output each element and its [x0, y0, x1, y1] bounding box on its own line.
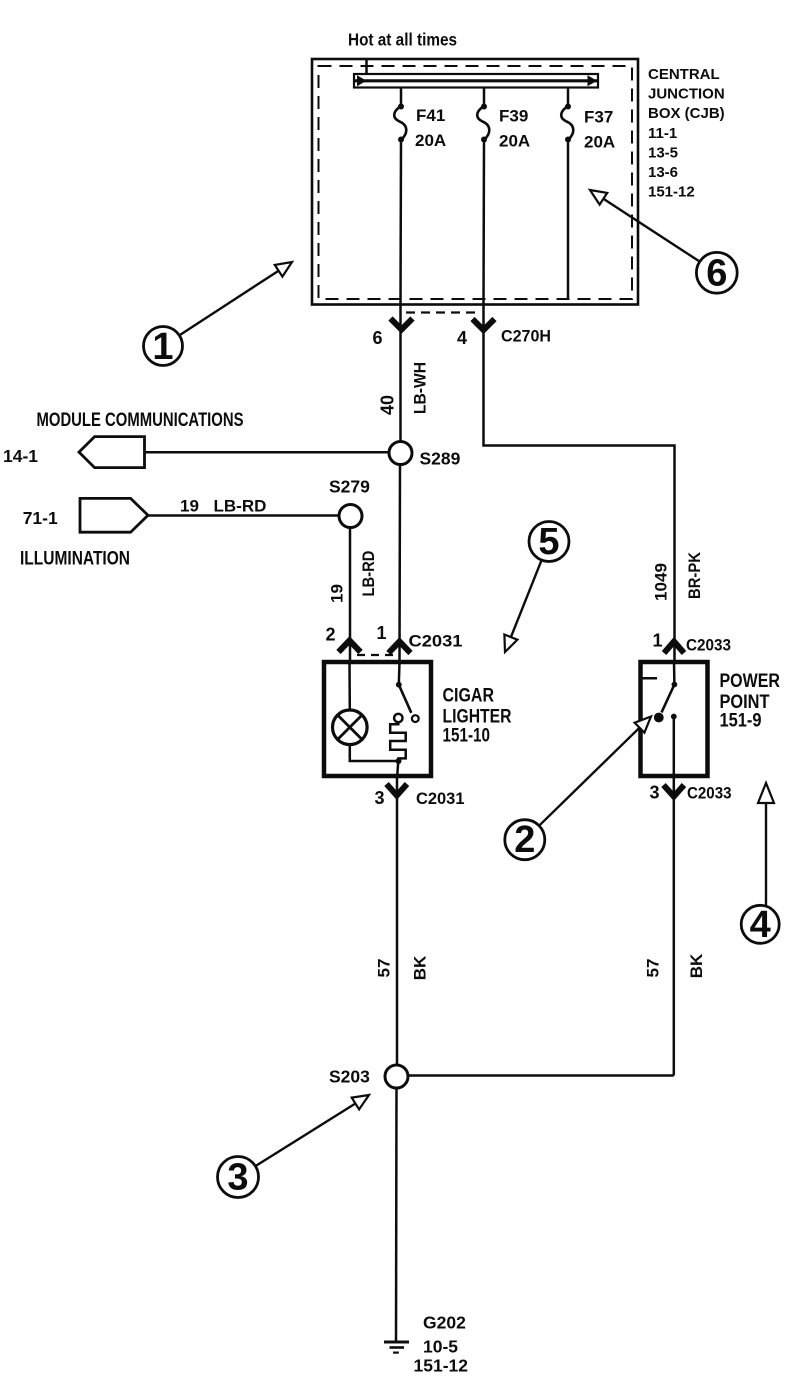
- heating element: [390, 722, 406, 761]
- wire: module communications to S289: [145, 451, 390, 454]
- svg-text:F37: F37: [584, 108, 613, 127]
- wire: hot feed into bus: [365, 59, 368, 75]
- wire: S203 to ground: [395, 1088, 398, 1342]
- svg-text:ILLUMINATION: ILLUMINATION: [20, 548, 130, 570]
- svg-text:S203: S203: [329, 1067, 370, 1087]
- svg-text:3: 3: [227, 1157, 248, 1199]
- callout 1: [144, 262, 293, 368]
- central junction box CJB inner dashed border: [319, 66, 633, 299]
- power point box: [641, 662, 708, 776]
- wire: illumination to S279: [148, 514, 339, 517]
- wire: circuit 1049 from pin 4 to power point: [484, 306, 675, 663]
- svg-text:C2033: C2033: [686, 636, 731, 655]
- svg-text:LIGHTER: LIGHTER: [443, 707, 512, 728]
- fuse F41 20A: [394, 88, 446, 151]
- svg-text:6: 6: [706, 252, 727, 294]
- connector C270H dashed line: [406, 311, 478, 313]
- svg-text:CENTRAL: CENTRAL: [648, 66, 720, 83]
- svg-text:MODULE COMMUNICATIONS: MODULE COMMUNICATIONS: [37, 409, 244, 431]
- wire: contact to pin 3: [673, 717, 676, 777]
- svg-text:5: 5: [538, 521, 559, 563]
- wire: S279 down to cigar lighter pin 2: [349, 528, 352, 663]
- switch pivot dot: [672, 682, 678, 688]
- svg-text:LB-WH: LB-WH: [411, 362, 430, 414]
- connector C2033 pin 3 arrow: [673, 776, 676, 1076]
- svg-text:C2031: C2031: [416, 789, 465, 808]
- wire: S289 down to cigar lighter pin 1: [398, 465, 401, 663]
- wire: pin 1 into switch: [398, 662, 401, 685]
- svg-text:19: 19: [328, 584, 347, 603]
- svg-text:3: 3: [650, 783, 660, 803]
- svg-text:6: 6: [373, 328, 383, 348]
- callout 6: [590, 190, 737, 294]
- connector C2031 dashed line: [357, 654, 393, 656]
- svg-text:2: 2: [326, 625, 336, 645]
- svg-text:BR-PK: BR-PK: [685, 551, 704, 599]
- svg-text:13-5: 13-5: [648, 144, 678, 161]
- svg-text:S289: S289: [420, 449, 461, 469]
- ground G202 symbol: [384, 1342, 409, 1353]
- wire: F39 to box bottom: [482, 140, 485, 306]
- svg-text:57: 57: [644, 959, 663, 978]
- svg-text:LB-RD: LB-RD: [214, 497, 267, 516]
- svg-text:BOX (CJB): BOX (CJB): [648, 105, 725, 122]
- wire: lamp bottom to junction: [350, 745, 399, 761]
- central junction box CJB outer border: [312, 59, 638, 305]
- svg-text:C270H: C270H: [501, 327, 551, 346]
- svg-text:14-1: 14-1: [3, 446, 38, 466]
- svg-text:S279: S279: [329, 477, 370, 497]
- svg-text:BK: BK: [687, 953, 706, 978]
- svg-text:1: 1: [653, 631, 663, 651]
- off-page connector flag (right pointing): [80, 498, 148, 532]
- svg-text:2: 2: [514, 819, 535, 861]
- callout 2: [505, 717, 651, 862]
- lower contact dot: [671, 714, 677, 720]
- svg-text:151-12: 151-12: [648, 184, 695, 201]
- connector C2031 pin 1 arrow: [389, 642, 411, 654]
- wire: pin 1 into switch: [673, 662, 676, 685]
- svg-text:20A: 20A: [415, 131, 446, 150]
- switch blade: [662, 685, 675, 713]
- fuse F39 20A: [477, 88, 530, 151]
- svg-text:POWER: POWER: [720, 671, 781, 692]
- svg-text:40: 40: [378, 395, 398, 415]
- svg-text:1: 1: [377, 623, 387, 643]
- connector pin 4 arrow C270H: [473, 319, 495, 330]
- callout 4: [741, 783, 779, 946]
- wire: junction to pin 3: [397, 761, 398, 776]
- svg-text:C2031: C2031: [409, 632, 463, 651]
- splice S289: [389, 442, 412, 465]
- wire: F37 stub: [567, 140, 570, 300]
- svg-text:151-9: 151-9: [720, 711, 762, 732]
- switch pivot dot: [396, 682, 402, 688]
- connector C2031 pin 2 arrow: [339, 641, 361, 653]
- svg-text:1049: 1049: [652, 563, 671, 601]
- power bus bar: [354, 74, 598, 88]
- connector pin 6 arrow: [391, 319, 413, 330]
- power point stub line: [641, 677, 658, 680]
- svg-text:151-10: 151-10: [443, 726, 491, 747]
- svg-text:F39: F39: [499, 107, 528, 126]
- svg-text:G202: G202: [423, 1313, 466, 1333]
- switch contact left (heater top): [394, 714, 402, 722]
- cigar lighter box: [324, 662, 431, 776]
- svg-text:57: 57: [375, 959, 394, 978]
- svg-text:CIGAR: CIGAR: [443, 686, 495, 707]
- svg-text:Hot at all times: Hot at all times: [348, 30, 457, 50]
- svg-text:20A: 20A: [499, 132, 530, 151]
- svg-text:LB-RD: LB-RD: [359, 551, 378, 597]
- wire: power point ground run to S203: [408, 1074, 674, 1077]
- svg-text:3: 3: [375, 788, 385, 808]
- off-page connector flag (left pointing): [79, 437, 145, 468]
- svg-text:C2033: C2033: [687, 784, 732, 803]
- fuse F37 20A: [561, 88, 615, 152]
- lamp (illumination bulb): [333, 710, 368, 745]
- svg-text:11-1: 11-1: [648, 125, 677, 142]
- svg-text:19: 19: [180, 497, 199, 516]
- wire: F41 to box bottom: [399, 140, 402, 306]
- switch contact right: [412, 715, 419, 722]
- svg-text:BK: BK: [411, 955, 430, 980]
- callout 3: [218, 1095, 370, 1199]
- svg-text:151-12: 151-12: [414, 1356, 469, 1376]
- switch blade: [399, 685, 412, 713]
- switch contact: [655, 714, 663, 722]
- wire: pin 2 into lamp: [348, 662, 351, 710]
- connector C2033 pin 1 arrow: [664, 642, 684, 654]
- node: CENTRAL JUNCTION BOX (CJB) text block: [648, 66, 725, 201]
- svg-text:10-5: 10-5: [423, 1337, 458, 1357]
- svg-text:20A: 20A: [584, 133, 615, 152]
- svg-text:71-1: 71-1: [23, 508, 58, 528]
- callout 5: [504, 521, 569, 652]
- svg-text:JUNCTION: JUNCTION: [648, 86, 725, 103]
- svg-text:4: 4: [750, 904, 771, 946]
- svg-text:4: 4: [457, 328, 467, 348]
- svg-text:F41: F41: [416, 106, 445, 125]
- svg-text:13-6: 13-6: [648, 164, 678, 181]
- connector C2031 pin 3 arrow: [396, 776, 399, 1065]
- wire: pin 6 down to S289: [399, 306, 402, 442]
- svg-text:1: 1: [152, 326, 173, 368]
- junction dot: [396, 758, 402, 764]
